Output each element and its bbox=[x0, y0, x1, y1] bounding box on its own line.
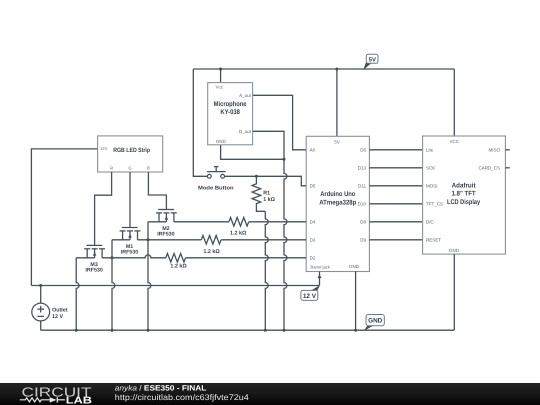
svg-text:G: G bbox=[128, 165, 131, 170]
svg-text:D10: D10 bbox=[358, 201, 367, 206]
svg-text:A_out: A_out bbox=[239, 93, 252, 98]
svg-text:D8: D8 bbox=[360, 219, 366, 224]
svg-text:SCK: SCK bbox=[426, 165, 435, 170]
svg-text:GND: GND bbox=[349, 264, 360, 269]
wire: Arduino 5V pin up to 5V net bbox=[336, 69, 338, 136]
net flag 5V bbox=[363, 54, 378, 70]
svg-text:B: B bbox=[147, 165, 150, 170]
junction: mic Vcc on 5V net bbox=[219, 68, 222, 71]
svg-text:Vcc: Vcc bbox=[216, 85, 224, 90]
wire: D4 row right segment bbox=[249, 221, 307, 223]
wire: D4 row from M2 drain to Arduino D4 bbox=[174, 221, 229, 223]
wire: LED strip B pin down-right to M2 gate bbox=[148, 172, 166, 210]
wire: D3 row from M1 drain bbox=[138, 239, 202, 241]
svg-text:D3: D3 bbox=[310, 237, 316, 242]
svg-text:anyka / ESE350 - FINAL: anyka / ESE350 - FINAL bbox=[115, 383, 207, 392]
wire: Arduino D9 to LCD RESET bbox=[369, 239, 422, 241]
svg-text:D11: D11 bbox=[358, 183, 366, 188]
resistor R3 1.2 kOhm on D3 row bbox=[201, 236, 221, 255]
svg-text:5V: 5V bbox=[369, 56, 376, 63]
svg-text:D_out: D_out bbox=[239, 129, 252, 134]
transistor M2 IRF530 bbox=[148, 210, 177, 238]
CircuitLab logo wordmark bbox=[20, 384, 92, 405]
resistor R4 1.2 kOhm on D2 row bbox=[166, 254, 188, 270]
junction: M3 source on GND rail bbox=[75, 329, 78, 332]
wire: LED strip G pin down to M1 gate bbox=[129, 172, 131, 228]
junction: R1 vertical on GND rail bbox=[264, 329, 267, 332]
svg-text:MISO: MISO bbox=[488, 147, 500, 152]
wire: Arduino D11 to LCD MOSI bbox=[369, 185, 422, 187]
svg-text:VCC: VCC bbox=[450, 139, 460, 144]
wire: LCD GND down then left along bottom to GND rail corner bbox=[453, 254, 455, 330]
svg-text:GND: GND bbox=[449, 248, 460, 253]
svg-text:R1: R1 bbox=[263, 190, 270, 196]
net flag GND bbox=[364, 315, 385, 331]
junction: M2 source on GND rail bbox=[147, 329, 150, 332]
node 12V: horizontal 12V rail bbox=[31, 285, 319, 287]
node 5V: main horizontal 5V net wire bbox=[193, 68, 454, 70]
wire: microphone D_out right then down (hops) to GND rail bbox=[253, 131, 287, 330]
svg-text:D/C: D/C bbox=[426, 219, 435, 224]
wire: Arduino D10 to LCD TFT_CS bbox=[369, 203, 422, 205]
svg-text:D13: D13 bbox=[358, 165, 367, 170]
wire: microphone A_out to Arduino A0 bbox=[253, 95, 307, 150]
LCD display U3 Adafruit 1.8in TFT box bbox=[423, 136, 506, 254]
resistor R1 1 kOhm bbox=[252, 176, 276, 211]
svg-text:D2: D2 bbox=[310, 255, 316, 260]
svg-text:RESET: RESET bbox=[426, 237, 441, 242]
svg-text:D5: D5 bbox=[310, 183, 316, 188]
svg-text:http://circuitlab.com/c63fjfvt: http://circuitlab.com/c63fjfvte72u4 bbox=[115, 393, 250, 402]
wire: M1 source down (dot at D2 row, hop 12V rail) to GND rail bbox=[112, 240, 115, 330]
svg-text:CARD_CS: CARD_CS bbox=[478, 165, 500, 170]
svg-text:TFT_CS: TFT_CS bbox=[426, 201, 443, 206]
svg-text:1.8" TFT: 1.8" TFT bbox=[452, 191, 477, 198]
junction: mic GND joins D_out vertical bbox=[283, 158, 286, 161]
svg-text:1.2 kΩ: 1.2 kΩ bbox=[203, 249, 220, 255]
svg-text:GND: GND bbox=[368, 318, 383, 325]
transistor M3 IRF530 bbox=[76, 245, 105, 273]
svg-text:1.2 kΩ: 1.2 kΩ bbox=[230, 231, 247, 237]
svg-text:KY-038: KY-038 bbox=[220, 109, 240, 116]
svg-text:12V: 12V bbox=[100, 146, 108, 151]
wire: Arduino D6 to LCD Lite bbox=[369, 149, 422, 151]
svg-text:Lite: Lite bbox=[426, 147, 434, 152]
node GND: horizontal ground rail bbox=[41, 329, 455, 331]
net flag 12V bbox=[301, 285, 320, 300]
junction: R1 top on button wire bbox=[255, 175, 258, 178]
svg-text:12 V: 12 V bbox=[303, 293, 317, 300]
wire: Arduino D13 to LCD SCK bbox=[369, 167, 422, 169]
svg-text:LCD Display: LCD Display bbox=[447, 199, 480, 206]
wire: microphone GND down and right to D_out vertical bbox=[221, 145, 284, 160]
transistor M1 IRF530 bbox=[112, 228, 140, 256]
wire: LCD VCC up to 5V net bbox=[453, 69, 455, 136]
op-amp substitute: Arduino Uno U2 box bbox=[306, 136, 369, 271]
wire: Arduino D8 to LCD D/C bbox=[369, 221, 422, 223]
svg-text:IRF530: IRF530 bbox=[121, 249, 138, 255]
pushbutton SW1 mode button bbox=[198, 167, 234, 192]
wire: D3 row right segment bbox=[221, 239, 306, 241]
svg-text:Arduino Uno: Arduino Uno bbox=[320, 191, 355, 198]
microphone U1 box KY-038 bbox=[208, 83, 253, 145]
svg-text:ATmega328p: ATmega328p bbox=[319, 199, 356, 206]
wire: Arduino GND down to GND rail bbox=[355, 272, 357, 331]
svg-text:A0: A0 bbox=[310, 147, 316, 152]
junction: M1 source on GND rail bbox=[111, 329, 114, 332]
resistor R2 1.2 kOhm on D4 row bbox=[229, 218, 249, 237]
svg-text:Microphone: Microphone bbox=[214, 101, 247, 108]
wire: mode button to Arduino D5 bbox=[225, 176, 307, 186]
svg-text:MOSI: MOSI bbox=[426, 183, 438, 188]
svg-text:RGB LED Strip: RGB LED Strip bbox=[113, 147, 150, 154]
wire: Arduino barrel jack stub down to 12V rail bbox=[319, 272, 321, 286]
wire: D2 row from M3 drain with hop over M2 source bbox=[102, 255, 166, 258]
wire: R1 bottom vertical (hops) down to GND rail bbox=[265, 211, 268, 330]
svg-text:1 kΩ: 1 kΩ bbox=[263, 197, 275, 203]
svg-text:R: R bbox=[110, 165, 113, 170]
svg-text:LAB: LAB bbox=[66, 395, 92, 405]
wire: M3 source down (hop 12V rail) to GND rail bbox=[76, 258, 79, 330]
svg-text:Mode Button: Mode Button bbox=[198, 185, 234, 191]
junction: Arduino 5V on 5V net bbox=[335, 68, 338, 71]
svg-text:Barrel jack: Barrel jack bbox=[311, 265, 331, 270]
junction: M1 source crosses D2 row bbox=[111, 256, 114, 259]
wire: microphone Vcc up to 5V net bbox=[220, 69, 222, 83]
wire: left vertical from 5V net down to mode button bbox=[193, 69, 207, 176]
svg-text:Outlet: Outlet bbox=[52, 307, 68, 313]
svg-text:D6: D6 bbox=[360, 147, 366, 152]
svg-text:D9: D9 bbox=[360, 237, 366, 242]
svg-text:Adafruit: Adafruit bbox=[452, 182, 477, 189]
wire: LED strip R pin down-left to M3 gate bbox=[95, 172, 112, 245]
wire: M2 source down (hops 12V rail) to GND rail bbox=[148, 222, 151, 330]
junction: M2 source crosses D3 row bbox=[147, 238, 150, 241]
voltage source V1 outlet 12V bbox=[32, 286, 68, 331]
junction: Arduino GND on GND rail bbox=[354, 329, 357, 332]
svg-text:D4: D4 bbox=[310, 219, 316, 224]
junction: D_out vertical on GND rail bbox=[283, 329, 286, 332]
svg-text:IRF530: IRF530 bbox=[85, 267, 102, 273]
svg-text:12 V: 12 V bbox=[52, 314, 63, 320]
svg-text:1.2 kΩ: 1.2 kΩ bbox=[170, 264, 187, 270]
svg-text:GND: GND bbox=[216, 139, 227, 144]
wire: LED strip 12V pin left and down to 12V rail bbox=[31, 149, 97, 286]
svg-text:IRF530: IRF530 bbox=[157, 231, 174, 237]
svg-text:5V: 5V bbox=[334, 139, 340, 144]
wire: D2 row right segment bbox=[186, 257, 307, 259]
RGB LED strip module box bbox=[98, 136, 163, 172]
junction: outlet plus on 12V rail bbox=[39, 284, 42, 287]
node 12V: arrowhead at barrel jack stub bbox=[318, 274, 322, 278]
